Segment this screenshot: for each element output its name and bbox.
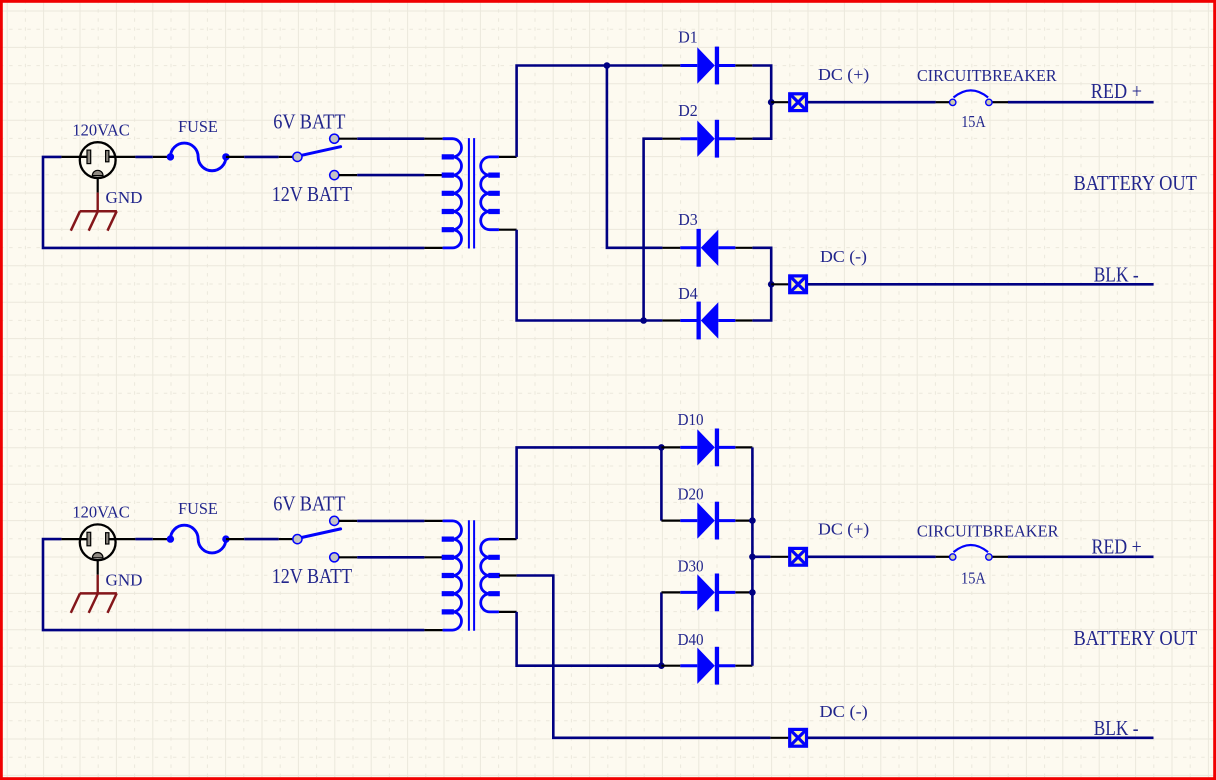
pin: transformer primary top [424, 138, 442, 140]
svg-text:DC (-): DC (-) [820, 247, 867, 266]
pins D10 [661, 446, 752, 448]
circuit breaker CIRCUITBREAKER 15A [950, 90, 993, 105]
wire center-tap to DC- node [517, 576, 771, 738]
pin: switch throw 12V [339, 556, 357, 558]
wire secondary-top up to D10 row [517, 447, 662, 539]
junction [749, 589, 756, 596]
pin: breaker left [936, 101, 950, 103]
svg-text:FUSE: FUSE [178, 499, 218, 518]
wire 6V tap [357, 520, 424, 523]
svg-text:12V BATT: 12V BATT [272, 564, 353, 588]
pin: switch pole [279, 538, 293, 540]
pins D20 [661, 519, 752, 521]
svg-text:D2: D2 [678, 101, 698, 120]
pin: DC+ connector [770, 556, 788, 558]
diode D3 [680, 229, 735, 267]
fuse FUSE [167, 525, 230, 553]
diode D10 [680, 429, 735, 467]
svg-text:D10: D10 [678, 410, 704, 429]
wire D10-D20 left [660, 447, 663, 520]
wire 12V tap [357, 556, 424, 559]
junction [658, 662, 665, 669]
svg-text:D3: D3 [678, 210, 698, 229]
diode D30 [680, 574, 735, 612]
wire 12V tap [357, 174, 424, 177]
svg-text:6V BATT: 6V BATT [273, 492, 345, 516]
svg-text:RED +: RED + [1092, 534, 1142, 558]
pin: plug line-in [61, 156, 87, 158]
ground GND [71, 593, 117, 613]
svg-text:DC (+): DC (+) [818, 520, 869, 539]
pin: fuse left [153, 156, 171, 158]
wire secondary-bottom down to D40 row [517, 612, 662, 666]
svg-text:6V BATT: 6V BATT [273, 109, 345, 133]
junction [768, 99, 775, 106]
wire RED+ [1008, 555, 1154, 558]
wire [43, 539, 424, 630]
pin: transformer primary bottom [424, 629, 442, 631]
pin: transformer primary mid [424, 174, 442, 176]
wire [135, 156, 152, 159]
pins D2 [662, 138, 752, 140]
junction [604, 62, 611, 69]
pins D3 [662, 247, 752, 249]
svg-text:GND: GND [106, 188, 143, 207]
wire BLK- [808, 283, 1154, 286]
connector DC (+) [790, 94, 807, 111]
pin: switch throw 12V [339, 174, 357, 176]
wire secondary-top to D1 [517, 66, 663, 157]
connector DC (-) [790, 729, 807, 746]
switch SPDT 6V/12V select [293, 516, 341, 562]
wire 6V tap [357, 137, 424, 140]
junction [768, 281, 775, 288]
pin: switch pole [279, 156, 293, 158]
pin: breaker right [992, 556, 1008, 558]
svg-text:D4: D4 [678, 284, 698, 303]
AC plug 120VAC [80, 142, 116, 178]
pin: transformer primary mid [424, 556, 442, 558]
wire D1/D2 to DC+ node [752, 66, 771, 139]
svg-text:D1: D1 [678, 28, 698, 47]
pin: transformer secondary center tap [499, 574, 517, 576]
pin: transformer secondary top [499, 156, 517, 158]
pin: DC- connector [770, 737, 788, 739]
wire D2 to bottom rail [644, 139, 663, 321]
AC plug 120VAC [80, 524, 116, 560]
svg-text:BLK -: BLK - [1094, 262, 1139, 286]
junction [749, 554, 756, 561]
pins D1 [662, 64, 752, 66]
wire [135, 538, 152, 541]
wire (ground, maroon) [96, 193, 98, 212]
wire right rail [751, 447, 754, 665]
junction [640, 317, 647, 324]
pins D4 [662, 319, 752, 321]
pin: transformer secondary bottom [499, 611, 517, 613]
svg-text:D20: D20 [678, 484, 704, 503]
pin: plug line-out [109, 156, 135, 158]
svg-text:BLK -: BLK - [1094, 716, 1139, 740]
svg-text:RED +: RED + [1091, 79, 1142, 103]
wire DC+ to breaker [808, 555, 936, 558]
junction [658, 444, 665, 451]
pin: switch throw 6V [339, 520, 357, 522]
svg-text:DC (-): DC (-) [819, 702, 867, 721]
junction [749, 517, 756, 524]
pin: plug ground stem [97, 560, 99, 574]
svg-text:CIRCUITBREAKER: CIRCUITBREAKER [917, 66, 1057, 85]
pin: plug ground stem [97, 178, 99, 192]
wire DC+ to breaker [808, 101, 936, 104]
transformer T [442, 138, 500, 248]
pin: fuse right [226, 538, 244, 540]
pin: plug line-in [61, 538, 87, 540]
wire RED+ [1008, 101, 1154, 104]
svg-text:FUSE: FUSE [178, 117, 218, 136]
connector DC (-) [790, 276, 807, 293]
transformer T [442, 520, 500, 630]
diode D4 [680, 302, 735, 340]
diode D1 [680, 47, 735, 85]
svg-text:BATTERY OUT: BATTERY OUT [1074, 171, 1198, 195]
svg-text:GND: GND [106, 570, 143, 589]
svg-text:12V BATT: 12V BATT [272, 182, 353, 206]
connector DC (+) [790, 548, 807, 565]
fuse FUSE [167, 143, 230, 171]
wire D3/D4 to DC- node [752, 248, 771, 321]
wire (ground, maroon) [96, 575, 98, 594]
pin: plug line-out [109, 538, 135, 540]
pin: DC- connector [771, 283, 788, 285]
svg-text:15A: 15A [961, 112, 986, 131]
circuit breaker CIRCUITBREAKER 15A [950, 545, 993, 560]
svg-text:D40: D40 [678, 630, 704, 649]
svg-text:15A: 15A [961, 568, 986, 587]
pin: transformer secondary top [499, 538, 517, 540]
switch SPDT 6V/12V select [293, 134, 341, 180]
pin: switch throw 6V [339, 138, 357, 140]
diode D2 [680, 120, 735, 158]
wire [244, 156, 279, 159]
wire secondary-bottom to D4 [517, 230, 663, 321]
pins D40 [661, 665, 752, 667]
pins D30 [661, 591, 752, 593]
pin: transformer primary bottom [424, 247, 442, 249]
svg-text:D30: D30 [678, 557, 704, 576]
pin: transformer secondary bottom [499, 229, 517, 231]
diode D20 [680, 502, 735, 540]
wire BLK- [808, 736, 1154, 739]
svg-text:DC (+): DC (+) [818, 65, 869, 84]
pin: breaker left [936, 556, 950, 558]
pin: fuse right [226, 156, 244, 158]
pin: DC+ connector [771, 101, 788, 103]
diode D40 [680, 647, 735, 685]
wire [244, 538, 279, 541]
wire [43, 157, 424, 248]
wire D40-D30 left [660, 592, 663, 665]
pin: breaker right [992, 101, 1008, 103]
ground GND [71, 211, 117, 231]
pin: transformer primary top [424, 520, 442, 522]
wire to DC+ connector [752, 555, 770, 558]
svg-text:120VAC: 120VAC [72, 120, 129, 139]
svg-text:BATTERY OUT: BATTERY OUT [1074, 626, 1198, 650]
pin: fuse left [153, 538, 171, 540]
svg-text:120VAC: 120VAC [72, 503, 129, 522]
svg-text:CIRCUITBREAKER: CIRCUITBREAKER [917, 522, 1059, 541]
wire to D3 [607, 66, 663, 248]
